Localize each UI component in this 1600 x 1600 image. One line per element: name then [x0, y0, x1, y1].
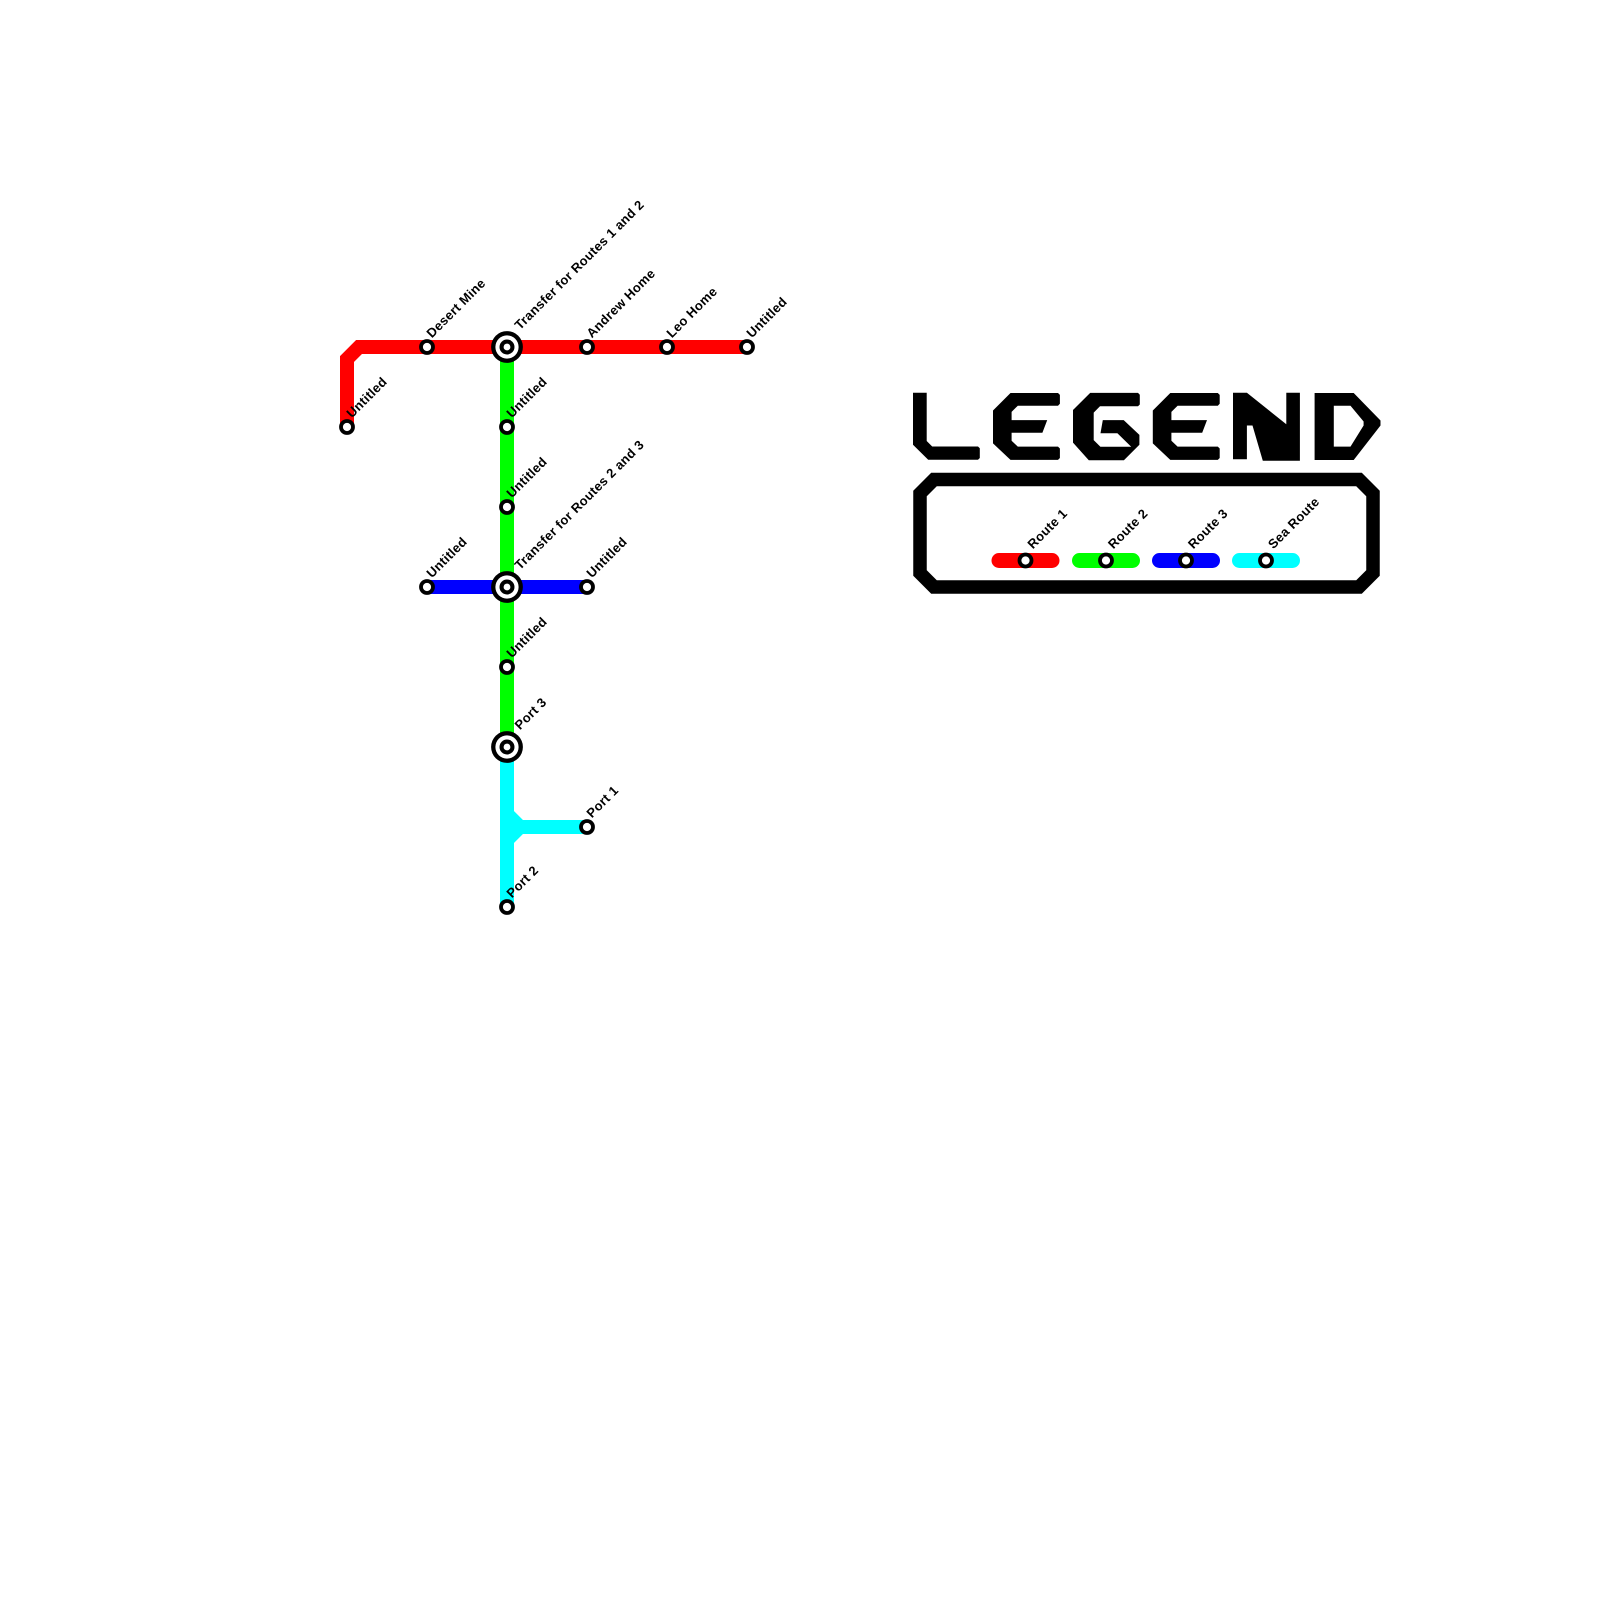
route 2 green line: [500, 347, 514, 747]
legend station Sea Route: [1258, 553, 1274, 569]
LEGEND title letter D: [1315, 393, 1381, 460]
svg-text:Route 1: Route 1: [1024, 506, 1070, 552]
svg-text:Port 3: Port 3: [512, 694, 550, 732]
LEGEND title letter L: [913, 393, 980, 460]
station Untitled (red right end): [739, 339, 755, 355]
interchange Transfer for Routes 1 and 2: [491, 331, 523, 363]
station Untitled (red end): [339, 419, 355, 435]
svg-text:Untitled: Untitled: [423, 534, 470, 581]
svg-text:Route 3: Route 3: [1185, 506, 1231, 552]
legend pill Route 3: [1160, 553, 1213, 568]
svg-text:Port 1: Port 1: [583, 783, 621, 821]
legend pill Route 2: [1080, 553, 1133, 568]
station Desert Mine: [419, 339, 435, 355]
sea route cyan main line: [500, 747, 514, 907]
legend station Route 2: [1098, 553, 1114, 569]
station Untitled (blue left): [419, 579, 435, 595]
sea route cyan branch to Port 1: [507, 814, 587, 827]
legend box: [920, 480, 1373, 588]
station Untitled (green 1): [499, 419, 515, 435]
svg-text:Desert Mine: Desert Mine: [423, 276, 488, 341]
legend pill Sea Route: [1240, 553, 1293, 568]
station Port 2: [499, 899, 515, 915]
LEGEND title letter E (second): [1153, 393, 1220, 460]
svg-text:Sea Route: Sea Route: [1265, 494, 1322, 551]
legend station Route 3: [1178, 553, 1194, 569]
svg-text:Untitled: Untitled: [743, 294, 790, 341]
svg-text:Leo Home: Leo Home: [663, 284, 720, 341]
legend pill Route 1: [999, 553, 1052, 568]
svg-text:Transfer for Routes 2 and 3: Transfer for Routes 2 and 3: [512, 437, 647, 572]
svg-text:Andrew Home: Andrew Home: [583, 266, 658, 341]
station Untitled (green 2): [499, 499, 515, 515]
interchange Port 3: [491, 731, 523, 763]
svg-text:Route 2: Route 2: [1105, 506, 1151, 552]
legend station Route 1: [1018, 553, 1034, 569]
sea route cyan branch flare: [507, 827, 520, 840]
route 1 red line: [347, 347, 747, 427]
station Untitled (blue right): [579, 579, 595, 595]
LEGEND title letter N: [1233, 393, 1300, 461]
svg-text:Transfer for Routes 1 and 2: Transfer for Routes 1 and 2: [512, 197, 647, 332]
station Andrew Home: [579, 339, 595, 355]
station Leo Home: [659, 339, 675, 355]
svg-text:Untitled: Untitled: [583, 534, 630, 581]
interchange Transfer for Routes 2 and 3: [491, 571, 523, 603]
station Untitled (green 3): [499, 659, 515, 675]
station Port 1: [579, 819, 595, 835]
route 3 blue line: [427, 580, 587, 594]
LEGEND title letter E: [993, 393, 1060, 460]
LEGEND title letter G: [1073, 393, 1140, 460]
